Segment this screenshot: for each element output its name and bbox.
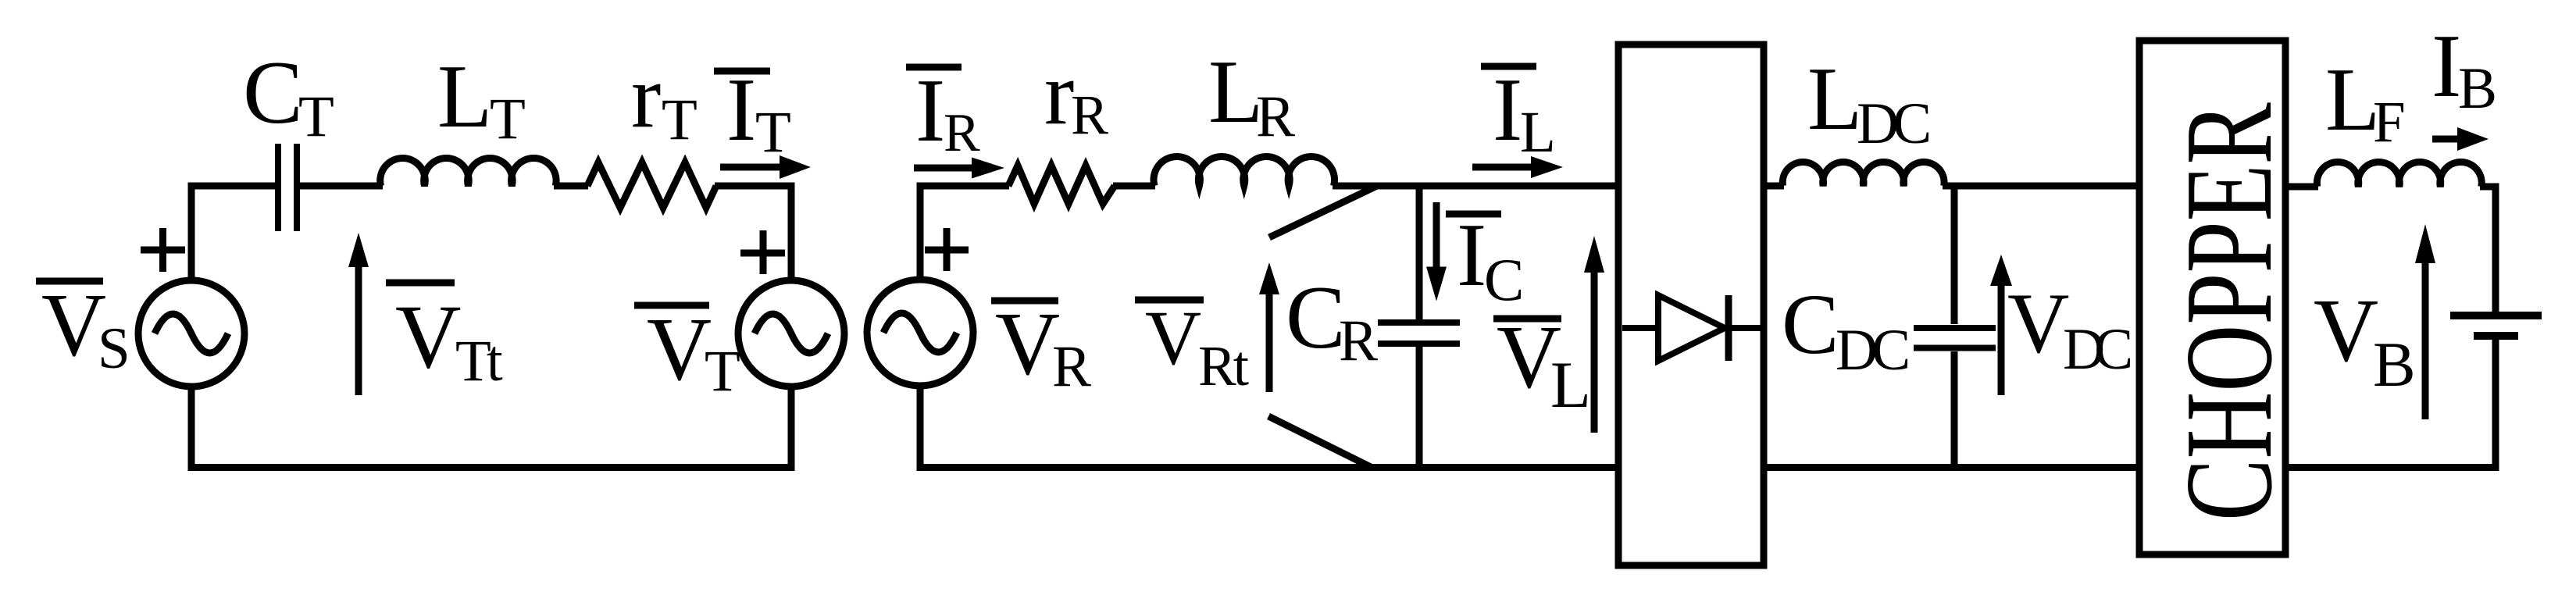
diode cathode bar <box>1725 295 1732 361</box>
arrow IB shaft <box>2432 136 2460 143</box>
arrow VTt shaft <box>355 266 362 395</box>
arrow IC head <box>1426 267 1447 301</box>
arrow VDC shaft <box>1998 284 2005 395</box>
svg-text:T: T <box>662 87 698 152</box>
svg-text:I: I <box>1457 205 1486 305</box>
wire rectifier to LDC <box>1764 183 1784 190</box>
coil cut diagonal bottom <box>1268 416 1372 468</box>
plus sign VT <box>740 230 785 274</box>
inductor LF <box>2317 162 2481 187</box>
inductor LDC <box>1782 162 1944 186</box>
svg-text:V: V <box>41 276 106 375</box>
overbar VR <box>991 298 1058 305</box>
overbar VTt <box>386 280 455 287</box>
inductor LR <box>1154 157 1335 186</box>
AC source VT <box>738 280 844 387</box>
arrow IR shaft <box>914 165 975 172</box>
svg-text:L: L <box>1520 100 1556 165</box>
inductor LT <box>380 159 556 186</box>
resistor rT <box>587 162 716 208</box>
svg-text:C: C <box>243 43 303 142</box>
arrow IT head <box>780 155 811 179</box>
overbar IR <box>906 64 962 71</box>
svg-text:L: L <box>437 47 492 146</box>
svg-text:V: V <box>2007 276 2069 371</box>
chopper box <box>2139 41 2285 554</box>
wire CDC branch upper <box>1951 186 1958 324</box>
overbar IL <box>1481 63 1536 70</box>
AC source VR <box>867 280 973 386</box>
diode lead left <box>1622 325 1658 331</box>
wire VS bottom <box>188 385 195 471</box>
arrow IB head <box>2457 127 2489 151</box>
wire LT to rT <box>554 183 588 190</box>
arrow VB head <box>2415 224 2435 263</box>
diode triangle <box>1658 295 1725 361</box>
svg-text:S: S <box>98 316 130 381</box>
wire rT to corner and down to VT <box>715 186 791 281</box>
wire LR to rectifier <box>1333 183 1618 190</box>
battery VB plate long <box>2450 312 2542 319</box>
svg-text:DC: DC <box>1857 91 1928 156</box>
arrow VTt head <box>348 233 369 267</box>
wire CR branch upper <box>1416 186 1423 319</box>
svg-text:R: R <box>1339 308 1378 373</box>
arrow VL head <box>1584 236 1604 273</box>
arrow IT shaft <box>720 164 783 171</box>
svg-text:CHOPPER: CHOPPER <box>2159 102 2298 521</box>
wire top left to CT <box>188 183 276 190</box>
rectifier box <box>1618 45 1764 565</box>
AC source VS <box>138 280 244 387</box>
arrow IL head <box>1531 156 1563 178</box>
wire CT to LT <box>300 183 383 190</box>
svg-text:B: B <box>2458 56 2497 121</box>
wire bottom rectifier to chopper <box>1764 464 2139 471</box>
svg-text:R: R <box>944 103 980 163</box>
svg-text:I: I <box>2432 16 2461 116</box>
svg-text:I: I <box>1493 60 1522 159</box>
wire bottom transmitter <box>188 464 795 471</box>
svg-text:T: T <box>705 339 740 404</box>
svg-text:V: V <box>1145 294 1201 381</box>
battery VB plate short <box>2474 332 2518 340</box>
svg-text:L: L <box>1807 49 1862 148</box>
svg-text:T: T <box>298 84 334 149</box>
wire VS top vertical <box>188 186 195 283</box>
svg-text:L: L <box>1208 42 1263 141</box>
arrow IL shaft <box>1472 164 1534 171</box>
wire LDC to chopper <box>1943 183 2139 190</box>
overbar VS <box>36 278 103 285</box>
svg-text:R: R <box>1256 84 1295 149</box>
wire VT bottom <box>788 385 795 471</box>
svg-text:I: I <box>915 61 945 160</box>
svg-text:F: F <box>2373 90 2406 155</box>
diode lead right <box>1729 325 1761 331</box>
wire VR top vertical <box>917 186 924 282</box>
svg-text:Tt: Tt <box>455 329 503 394</box>
svg-text:C: C <box>1484 246 1524 313</box>
arrow VB shaft <box>2422 261 2429 419</box>
overbar IT <box>714 68 770 75</box>
overbar VL <box>1493 316 1561 323</box>
svg-text:Rt: Rt <box>1198 334 1249 398</box>
arrow VRt head <box>1259 262 1279 294</box>
capacitor CT <box>275 144 281 231</box>
svg-text:C: C <box>1782 276 1839 372</box>
wire rR to LR <box>1113 183 1155 190</box>
wire LF to battery corner <box>2480 187 2496 312</box>
svg-text:V: V <box>2314 281 2378 380</box>
wire VR to rR <box>917 183 1010 190</box>
wire CR branch lower <box>1416 347 1423 467</box>
wire CDC branch lower <box>1951 351 1958 467</box>
svg-text:DC: DC <box>2063 317 2130 382</box>
svg-text:R: R <box>1071 84 1108 146</box>
wire bottom receiver <box>917 464 1619 471</box>
svg-text:T: T <box>490 87 526 152</box>
svg-text:V: V <box>647 300 712 399</box>
svg-text:T: T <box>755 100 791 165</box>
svg-text:I: I <box>726 60 756 159</box>
arrow IR head <box>972 158 1004 179</box>
svg-text:r: r <box>631 47 661 146</box>
svg-text:DC: DC <box>1836 318 1907 383</box>
svg-text:R: R <box>1052 334 1091 399</box>
coil cut diagonal top <box>1269 186 1377 237</box>
resistor rR <box>1008 166 1115 204</box>
svg-text:L: L <box>1550 348 1591 422</box>
overbar VRt <box>1135 297 1204 304</box>
arrow VL shaft <box>1591 270 1598 433</box>
wire VR bottom vertical <box>917 384 924 471</box>
arrow VRt shaft <box>1266 293 1273 392</box>
svg-text:V: V <box>995 294 1060 394</box>
overbar IC <box>1446 211 1501 218</box>
svg-text:r: r <box>1044 44 1074 143</box>
capacitor CDC <box>1914 325 1996 331</box>
svg-text:B: B <box>2373 329 2416 400</box>
wire bottom chopper to battery <box>2285 464 2499 471</box>
arrow VDC head <box>1990 255 2012 286</box>
wire chopper to LF <box>2285 184 2318 191</box>
svg-text:C: C <box>1286 268 1346 367</box>
svg-text:L: L <box>2325 50 2380 149</box>
overbar VT <box>634 302 709 309</box>
plus sign VS <box>141 228 185 272</box>
plus sign VR <box>925 228 969 271</box>
arrow IC shaft <box>1433 202 1440 269</box>
capacitor CR <box>1378 319 1460 326</box>
wire battery bottom <box>2492 340 2499 471</box>
svg-text:V: V <box>395 287 462 387</box>
